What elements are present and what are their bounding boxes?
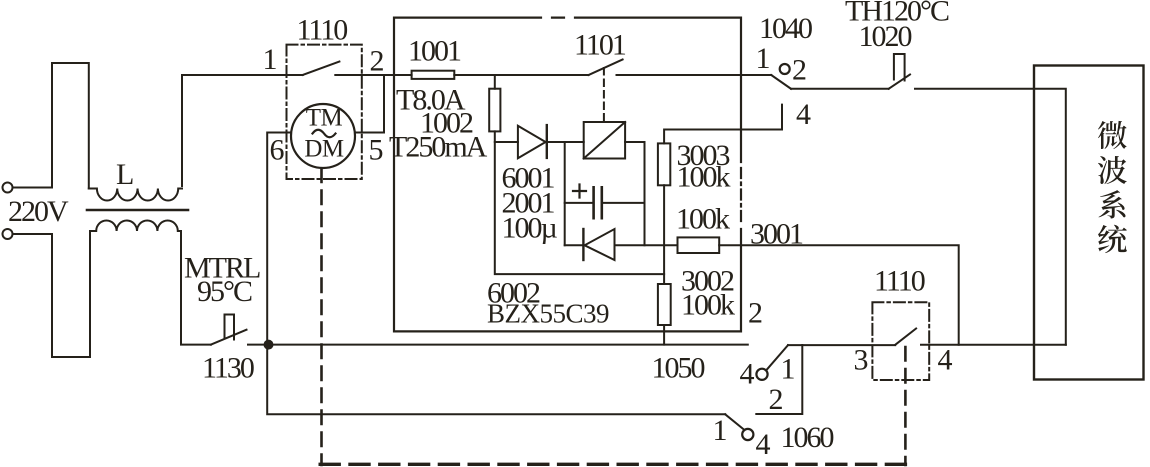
svg-text:T250mA: T250mA <box>389 131 488 164</box>
node 1040 contact 2 circle <box>780 64 790 74</box>
svg-text:4: 4 <box>938 344 953 377</box>
svg-text:100µ: 100µ <box>502 212 558 245</box>
svg-text:2: 2 <box>792 54 806 87</box>
capacitor 2001 left lead <box>565 202 593 204</box>
svg-text:3: 3 <box>854 344 868 377</box>
mechanical link bottom dashed <box>320 463 905 466</box>
switch 1040 blade <box>771 75 791 89</box>
wire primary right lead to door switch 1110 pin 1 <box>182 75 303 186</box>
wire door switch pin2 to fuse 1001 <box>335 74 411 76</box>
fuse 1001 <box>412 71 455 79</box>
box control board outline <box>394 18 741 332</box>
wire fuse 1001 to relay contact 1101 <box>454 74 588 76</box>
box door unit 1110 dash-dot <box>287 45 362 179</box>
wire relay coil right down <box>625 142 644 245</box>
wire 1020 to microwave system <box>915 89 1066 345</box>
switch 1050 blade <box>766 345 788 370</box>
svg-text:1: 1 <box>756 42 770 75</box>
svg-text:1050: 1050 <box>652 352 705 385</box>
zener diode 6002 <box>585 229 615 260</box>
wire zener to resistor 3001 <box>615 244 678 246</box>
resistor 3001 <box>678 237 720 253</box>
svg-text:1: 1 <box>781 353 795 386</box>
mechanical link relay 1101 dashed <box>603 68 605 122</box>
svg-text:220V: 220V <box>8 195 69 228</box>
switch door interlock blade <box>303 62 340 76</box>
wire main bus MTRL to 1050 <box>248 344 748 346</box>
wire to diode 6001 anode <box>495 141 518 143</box>
svg-text:2: 2 <box>370 45 384 78</box>
resistor 3003 <box>658 143 670 185</box>
wire 3003 bottom column <box>663 185 665 284</box>
svg-text:100k: 100k <box>676 203 730 236</box>
svg-text:2: 2 <box>748 297 762 330</box>
box timer switch 1110 dash-dot <box>872 302 929 380</box>
thermal actuator MTRL <box>225 315 235 340</box>
box control board right edge dash-dot <box>740 168 742 224</box>
svg-text:100k: 100k <box>677 161 731 194</box>
wire 1050 to timer switch 1110 <box>788 344 895 346</box>
diode 6001 <box>518 126 546 158</box>
label bo <box>1098 156 1127 184</box>
wire zener row left <box>565 244 584 246</box>
switch 1020 blade <box>889 75 910 89</box>
svg-text:1060: 1060 <box>781 421 834 454</box>
box microwave system <box>1034 66 1144 380</box>
svg-text:TM: TM <box>306 105 343 132</box>
node junction dot MTRL-pin6 <box>264 340 274 350</box>
wire branch down to fuse 1002 <box>494 75 496 89</box>
node 1060 contact 4 circle <box>742 429 753 440</box>
label tong <box>1098 225 1127 253</box>
wire secondary right lead to MTRL switch <box>181 231 211 345</box>
resistor 3002 <box>658 284 671 325</box>
switch timer blade <box>895 329 916 345</box>
svg-text:BZX55C39: BZX55C39 <box>487 299 609 329</box>
wire diode to relay coil <box>547 141 584 143</box>
svg-text:100k: 100k <box>681 289 735 322</box>
label plus polarity <box>573 185 586 198</box>
thermal actuator 1020 <box>894 54 905 81</box>
svg-text:1130: 1130 <box>202 352 254 385</box>
svg-text:1: 1 <box>263 43 277 76</box>
wire 3001 to right loop <box>719 245 959 344</box>
svg-text:2: 2 <box>769 383 783 416</box>
fuse 1002 <box>489 89 500 132</box>
wire 3003 top to terminal 4 stub <box>664 105 782 144</box>
svg-text:4: 4 <box>740 358 755 391</box>
transformer core <box>87 209 188 212</box>
wire 3002 bottom to bus <box>663 325 665 345</box>
node 220V terminal bottom <box>3 229 13 239</box>
wire 1050 pin2 stub <box>756 345 802 414</box>
svg-text:1001: 1001 <box>408 35 461 68</box>
svg-text:1: 1 <box>713 414 727 447</box>
node 220V terminal top <box>3 183 13 193</box>
wire 1101 contact to 1040 pin1 <box>617 74 772 76</box>
svg-text:1020: 1020 <box>859 20 912 53</box>
wire motor pin 5 up to line <box>355 75 384 133</box>
label tilde <box>313 130 336 138</box>
label wei <box>1098 121 1127 149</box>
inductor L primary winding <box>89 189 182 201</box>
capacitor 2001 plates <box>594 187 602 218</box>
node 1050 contact 4 circle <box>756 369 767 380</box>
wire bottom terminal to transformer secondary <box>13 231 90 357</box>
svg-text:1110: 1110 <box>874 265 925 298</box>
switch 1060 blade <box>725 414 744 430</box>
wire motor pin 6 down and to 1060 <box>267 133 725 415</box>
svg-text:6: 6 <box>270 134 285 167</box>
svg-text:95°C: 95°C <box>197 275 252 308</box>
mechanical link motor dashed <box>320 169 323 466</box>
wire timer pin4 out <box>921 344 1066 346</box>
svg-text:1110: 1110 <box>297 14 348 47</box>
svg-text:L: L <box>116 158 133 191</box>
wire fuse 1002 down and right return <box>495 131 664 274</box>
switch MTRL blade <box>211 330 247 345</box>
motor TM/DM turntable <box>291 104 355 168</box>
wire 1040 to thermal 1020 <box>791 88 889 90</box>
mechanical link timer dashed <box>904 347 907 465</box>
svg-text:1101: 1101 <box>574 29 626 62</box>
zener diode 6002 cathode bar <box>582 229 584 260</box>
relay coil 1101 <box>584 122 625 159</box>
switch relay contact 1101 blade <box>589 60 623 76</box>
inductor L secondary winding <box>90 221 181 232</box>
svg-text:4: 4 <box>756 428 771 461</box>
capacitor 2001 right lead <box>603 202 645 204</box>
diode 6001 cathode bar <box>546 125 548 158</box>
svg-text:4: 4 <box>796 98 811 131</box>
wire top terminal to transformer primary <box>13 63 89 189</box>
svg-text:DM: DM <box>304 136 344 163</box>
svg-text:5: 5 <box>369 134 383 167</box>
label xi <box>1099 190 1126 218</box>
svg-text:1040: 1040 <box>759 12 812 45</box>
wire branch left column <box>564 142 566 245</box>
